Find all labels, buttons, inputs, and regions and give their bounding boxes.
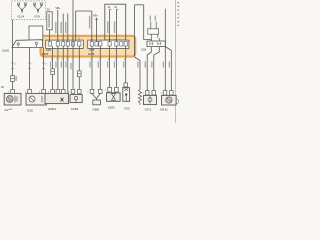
X183 [108,87,112,92]
wire below to G08/1 pin1 [52,46,54,89]
wire trapezoid right to E15 right [43,47,45,89]
svg-text:X7/9: X7/9 [34,14,40,18]
svg-text:Y571: Y571 [144,107,151,111]
wire below strip cell2 to G08/1 pin2 [57,46,59,89]
connector symbol X7/9 [34,3,43,13]
wire 91.8 from L down to strip2 and G8/8 left [91,11,93,42]
svg-text:VB+: VB+ [93,13,99,17]
connector X29 [147,41,165,47]
wires to M141 [164,9,166,91]
G08/1 [51,89,55,93]
G8/8 [90,89,94,93]
svg-text:VB+: VB+ [55,6,61,10]
pin cells strip left [48,42,81,46]
svg-text:F20: F20 [124,106,130,110]
connector symbol X11/4 [18,3,27,13]
svg-text:E15: E15 [28,109,34,113]
svg-text:30: 30 [47,8,50,12]
svg-text:S16/6: S16/6 [2,48,10,52]
pin cells strip right [90,42,127,46]
right page border [174,0,176,123]
svg-text:G08/1: G08/1 [48,107,57,111]
wire 67.8 above and below [67,14,69,42]
X29 to Y571 wires [147,47,151,91]
wire fuse to strip [49,30,51,42]
top-left dashed box [12,1,46,20]
fuse F20 [124,83,128,87]
A1M25 motor [11,89,15,93]
wire strip2 to F20 [125,46,127,83]
inline connector on wire [11,76,15,82]
connector strip X26 (right) [88,40,129,48]
highlighted control-unit band (orange highlight) [41,36,136,57]
wire below to G8/8 right [99,46,101,89]
fuse holder box top [47,12,52,30]
svg-text:X183: X183 [108,105,115,109]
pin numbers above band [49,37,127,40]
svg-text:G8/8: G8/8 [92,108,99,112]
svg-text:M141: M141 [160,107,168,111]
wire trapezoid to E15 left [29,47,31,89]
K1B2 relay [71,89,75,93]
svg-text:E6/5: E6/5 [42,52,49,56]
tall empty box [29,26,43,41]
wire from dashed box down to A1M25 [12,20,14,90]
wire 73 from top to K1B2 left [72,0,74,89]
E15 [28,89,32,93]
wires below strip2 to X183 [109,46,111,87]
small connector box above X29 [148,29,159,34]
svg-text:X29: X29 [141,48,147,52]
heater element (zigzag) [138,89,141,105]
svg-text:K1B2: K1B2 [71,107,79,111]
L wire and 79.3 [76,10,92,12]
svg-text:X11/4: X11/4 [17,14,25,18]
control unit big box [105,4,126,40]
connector strip X26 (left) [46,40,84,48]
wire 63 above and below [62,14,64,42]
tick labels on wire [11,62,14,64]
svg-text:E6/6: E6/6 [88,52,95,56]
inner terminal wires [109,9,111,41]
valve Y571 [145,91,149,95]
trapezoid connector S16/6 [12,40,43,48]
top-right L wire pair [135,4,144,6]
motor M141 [163,91,167,95]
